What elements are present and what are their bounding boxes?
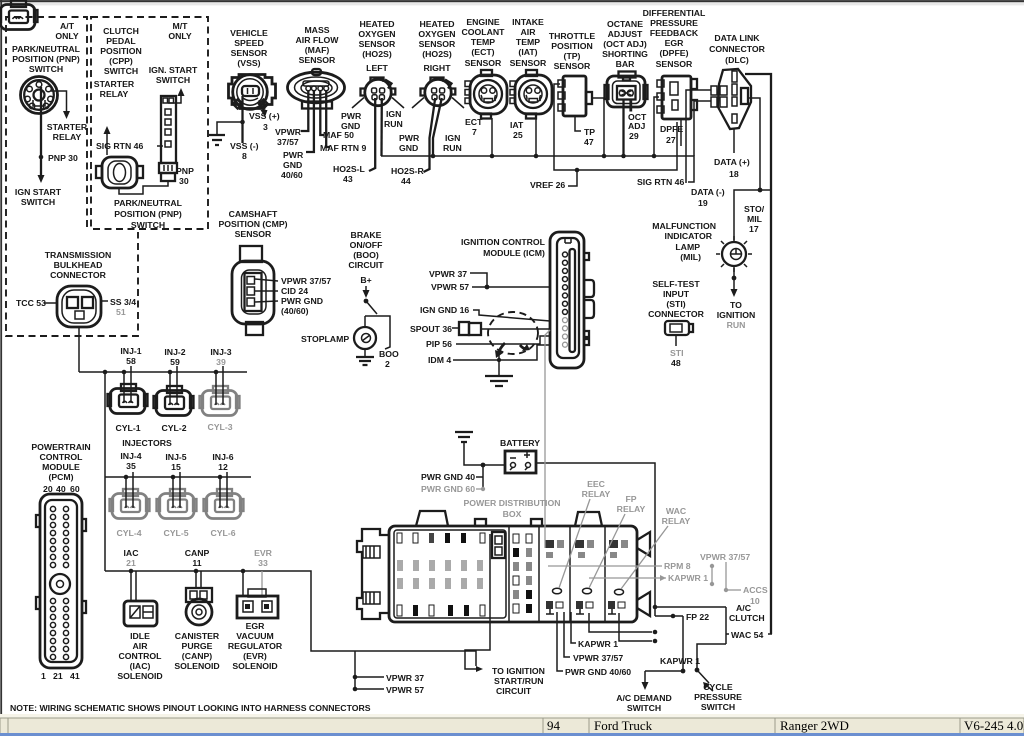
svg-text:RIGHT: RIGHT [423,63,451,73]
svg-text:48: 48 [671,358,681,368]
svg-text:POWERTRAIN: POWERTRAIN [31,442,90,452]
svg-text:IGN. START: IGN. START [149,65,198,75]
svg-text:MODULE: MODULE [42,462,80,472]
svg-text:BRAKE: BRAKE [351,230,382,240]
svg-text:HEATED: HEATED [419,19,454,29]
svg-text:VPWR 37/57: VPWR 37/57 [700,552,750,562]
svg-text:COOLANT: COOLANT [462,27,506,37]
svg-text:POSITION (PNP): POSITION (PNP) [12,54,80,64]
svg-text:DATA (+): DATA (+) [714,157,750,167]
svg-text:INJECTORS: INJECTORS [122,438,172,448]
svg-text:INJ-1: INJ-1 [120,346,141,356]
svg-text:DPFE: DPFE [660,124,683,134]
svg-text:OXYGEN: OXYGEN [418,29,455,39]
svg-text:PEDAL: PEDAL [106,36,136,46]
svg-text:RUN: RUN [727,320,746,330]
svg-text:12: 12 [218,462,228,472]
svg-text:POSITION: POSITION [551,41,593,51]
svg-text:Ford Truck: Ford Truck [594,718,653,733]
svg-text:7: 7 [472,127,477,137]
svg-text:40: 40 [56,484,66,494]
svg-text:REGULATOR: REGULATOR [228,641,283,651]
svg-text:TP: TP [584,127,595,137]
svg-text:EEC: EEC [587,479,606,489]
svg-text:START/RUN: START/RUN [494,676,544,686]
svg-text:SWITCH: SWITCH [104,66,138,76]
svg-text:PNP 30: PNP 30 [48,153,78,163]
svg-text:HO2S-R: HO2S-R [391,166,425,176]
svg-text:PIP 56: PIP 56 [426,339,452,349]
svg-text:FEEDBACK: FEEDBACK [650,28,699,38]
svg-text:BOX: BOX [503,509,522,519]
svg-text:CYL-3: CYL-3 [207,422,232,432]
svg-text:CANP: CANP [185,548,210,558]
svg-text:SIG RTN 46: SIG RTN 46 [96,141,143,151]
svg-text:ENGINE: ENGINE [466,17,500,27]
svg-text:IGN: IGN [386,109,401,119]
svg-text:IDM 4: IDM 4 [428,355,451,365]
svg-text:KAPWR 1: KAPWR 1 [660,656,700,666]
svg-text:VPWR 57: VPWR 57 [431,282,469,292]
svg-text:MASS: MASS [304,25,329,35]
svg-text:SWITCH: SWITCH [156,75,190,85]
svg-text:SENSOR: SENSOR [231,48,268,58]
svg-text:SS 3/4: SS 3/4 [110,297,136,307]
svg-text:SWITCH: SWITCH [29,64,63,74]
svg-text:VSS (-): VSS (-) [230,141,259,151]
svg-text:RELAY: RELAY [582,489,611,499]
svg-text:VREF 26: VREF 26 [530,180,565,190]
svg-text:PWR GND 40: PWR GND 40 [421,472,475,482]
svg-text:CYL-6: CYL-6 [210,528,235,538]
svg-text:TEMP: TEMP [516,37,540,47]
svg-text:STI: STI [670,348,684,358]
svg-text:PWR GND 60: PWR GND 60 [421,484,475,494]
svg-text:POSITION (PNP): POSITION (PNP) [114,209,182,219]
svg-text:IAC: IAC [124,548,140,558]
svg-text:(HO2S): (HO2S) [422,49,452,59]
svg-text:VACUUM: VACUUM [236,631,273,641]
svg-text:PRESSURE: PRESSURE [694,692,742,702]
svg-text:NOTE: WIRING SCHEMATIC SHOWS P: NOTE: WIRING SCHEMATIC SHOWS PINOUT LOOK… [10,703,371,713]
svg-text:SHORTING: SHORTING [602,49,648,59]
svg-text:CONTROL: CONTROL [119,651,163,661]
svg-text:30: 30 [179,176,189,186]
svg-text:CYCLE: CYCLE [703,682,733,692]
svg-text:PWR: PWR [399,133,420,143]
svg-text:VSS (+): VSS (+) [249,111,280,121]
svg-text:37/57: 37/57 [277,137,299,147]
svg-text:V6-245 4.0L: V6-245 4.0L [964,718,1024,733]
svg-text:DATA (-): DATA (-) [691,187,725,197]
svg-text:THROTTLE: THROTTLE [549,31,596,41]
svg-text:(IAC): (IAC) [130,661,151,671]
svg-text:19: 19 [698,198,708,208]
svg-text:SWITCH: SWITCH [131,220,165,230]
svg-text:PARK/NEUTRAL: PARK/NEUTRAL [114,198,183,208]
svg-text:IGN GND 16: IGN GND 16 [420,305,469,315]
svg-text:27: 27 [666,135,676,145]
svg-text:GND: GND [399,143,418,153]
svg-text:SPOUT 36: SPOUT 36 [410,324,452,334]
svg-text:CONNECTOR: CONNECTOR [50,270,107,280]
svg-text:PWR: PWR [283,150,304,160]
svg-text:58: 58 [126,356,136,366]
svg-text:ADJUST: ADJUST [608,29,643,39]
svg-text:CYL-2: CYL-2 [161,423,186,433]
svg-text:(IAT): (IAT) [518,47,537,57]
svg-text:SENSOR: SENSOR [510,58,547,68]
svg-text:(ECT): (ECT) [471,47,494,57]
svg-text:GND: GND [341,121,360,131]
svg-text:ADJ: ADJ [628,121,646,131]
svg-text:CYL-1: CYL-1 [115,423,140,433]
svg-text:FP: FP [625,494,636,504]
svg-text:94: 94 [547,718,561,733]
svg-text:PWR: PWR [341,111,362,121]
svg-text:35: 35 [126,461,136,471]
svg-text:INJ-2: INJ-2 [164,347,185,357]
svg-text:SIG RTN 46: SIG RTN 46 [637,177,684,187]
svg-text:MAF 50: MAF 50 [323,130,354,140]
svg-text:Ranger 2WD: Ranger 2WD [780,718,849,733]
svg-text:INJ-6: INJ-6 [212,452,233,462]
svg-text:(CANP): (CANP) [182,651,213,661]
svg-text:11: 11 [192,558,201,568]
svg-text:VPWR 37: VPWR 37 [429,269,467,279]
svg-text:SENSOR: SENSOR [299,55,336,65]
svg-text:WAC: WAC [666,506,687,516]
svg-text:RELAY: RELAY [53,132,82,142]
svg-text:ON/OFF: ON/OFF [350,240,383,250]
svg-text:PWR GND: PWR GND [281,296,323,306]
svg-text:KAPWR 1: KAPWR 1 [668,573,708,583]
svg-text:AIR FLOW: AIR FLOW [296,35,340,45]
svg-text:(HO2S): (HO2S) [362,49,392,59]
svg-text:SENSOR: SENSOR [419,39,456,49]
svg-text:(OCT ADJ): (OCT ADJ) [603,39,647,49]
svg-text:RPM 8: RPM 8 [664,561,691,571]
svg-text:CONTROL: CONTROL [40,452,84,462]
svg-text:VPWR 37: VPWR 37 [386,673,424,683]
svg-text:CLUTCH: CLUTCH [103,26,139,36]
svg-text:VPWR 57: VPWR 57 [386,685,424,695]
svg-text:(40/60): (40/60) [281,306,309,316]
svg-text:HEATED: HEATED [359,19,394,29]
svg-text:POSITION: POSITION [100,46,142,56]
svg-text:INDICATOR: INDICATOR [665,231,713,241]
svg-text:INJ-4: INJ-4 [120,451,141,461]
svg-text:(TP): (TP) [564,51,581,61]
svg-text:47: 47 [584,137,594,147]
svg-text:INTAKE: INTAKE [512,17,544,27]
svg-text:43: 43 [343,174,353,184]
svg-text:MAF RTN 9: MAF RTN 9 [320,143,366,153]
svg-text:TEMP: TEMP [471,37,495,47]
svg-text:AIR: AIR [133,641,149,651]
svg-text:59: 59 [170,357,180,367]
svg-text:1: 1 [41,671,46,681]
svg-text:TCC 53: TCC 53 [16,298,46,308]
svg-text:ONLY: ONLY [55,31,79,41]
svg-text:25: 25 [513,130,523,140]
svg-text:40/60: 40/60 [281,170,303,180]
svg-text:CIRCUIT: CIRCUIT [496,686,532,696]
svg-text:LEFT: LEFT [366,63,388,73]
svg-text:(MIL): (MIL) [680,252,701,262]
svg-text:RELAY: RELAY [662,516,691,526]
svg-text:HO2S-L: HO2S-L [333,164,366,174]
svg-text:60: 60 [70,484,80,494]
svg-text:WAC 54: WAC 54 [731,630,764,640]
svg-text:INPUT: INPUT [663,289,690,299]
svg-text:FP 22: FP 22 [686,612,709,622]
svg-text:20: 20 [43,484,53,494]
svg-text:TO: TO [730,300,742,310]
svg-text:8: 8 [242,151,247,161]
svg-text:IGN START: IGN START [15,187,62,197]
svg-text:IGN: IGN [445,133,460,143]
svg-text:2: 2 [385,359,390,369]
svg-text:MALFUNCTION: MALFUNCTION [652,221,716,231]
svg-text:CIRCUIT: CIRCUIT [348,260,384,270]
svg-text:PURGE: PURGE [182,641,213,651]
svg-text:LAMP: LAMP [675,242,700,252]
svg-text:BAR: BAR [616,59,636,69]
svg-text:VPWR 37/57: VPWR 37/57 [281,276,331,286]
svg-text:DIFFERENTIAL: DIFFERENTIAL [643,8,706,18]
svg-text:BULKHEAD: BULKHEAD [54,260,103,270]
svg-text:21: 21 [53,671,63,681]
svg-text:INJ-5: INJ-5 [165,452,186,462]
svg-text:A/C DEMAND: A/C DEMAND [616,693,672,703]
svg-text:44: 44 [401,176,411,186]
svg-text:ECT: ECT [465,117,483,127]
svg-text:TRANSMISSION: TRANSMISSION [45,250,112,260]
svg-text:EVR: EVR [254,548,273,558]
svg-text:SWITCH: SWITCH [627,703,661,713]
svg-text:3: 3 [263,122,268,132]
svg-text:ONLY: ONLY [168,31,192,41]
svg-text:(EVR): (EVR) [243,651,267,661]
svg-text:VEHICLE: VEHICLE [230,28,268,38]
svg-text:A/C: A/C [736,603,752,613]
svg-text:SOLENOID: SOLENOID [232,661,277,671]
svg-text:(MAF): (MAF) [305,45,330,55]
svg-text:CID 24: CID 24 [281,286,308,296]
svg-text:SENSOR: SENSOR [359,39,396,49]
svg-text:51: 51 [116,307,126,317]
svg-text:DATA LINK: DATA LINK [714,33,760,43]
svg-text:PRESSURE: PRESSURE [650,18,698,28]
svg-text:21: 21 [126,558,136,568]
svg-text:A/T: A/T [60,21,75,31]
svg-text:IGNITION CONTROL: IGNITION CONTROL [461,237,546,247]
svg-text:SENSOR: SENSOR [235,229,272,239]
svg-text:PARK/NEUTRAL: PARK/NEUTRAL [12,44,81,54]
svg-text:KAPWR 1: KAPWR 1 [578,639,618,649]
svg-text:IGNITION: IGNITION [717,310,756,320]
svg-text:(PCM): (PCM) [48,472,73,482]
svg-text:SWITCH: SWITCH [21,197,55,207]
svg-text:SWITCH: SWITCH [701,702,735,712]
svg-text:33: 33 [258,558,268,568]
svg-text:CLUTCH: CLUTCH [729,613,765,623]
svg-text:(DPFE): (DPFE) [660,48,689,58]
svg-text:(VSS): (VSS) [237,58,260,68]
svg-text:STARTER: STARTER [94,79,135,89]
svg-text:SELF-TEST: SELF-TEST [652,279,700,289]
svg-text:CONNECTOR: CONNECTOR [709,44,766,54]
svg-text:17: 17 [749,224,759,234]
svg-text:(BOO): (BOO) [353,250,379,260]
svg-text:IAT: IAT [510,120,524,130]
svg-text:PWR GND 40/60: PWR GND 40/60 [565,667,631,677]
svg-text:SPEED: SPEED [234,38,263,48]
svg-text:CYL-4: CYL-4 [116,528,141,538]
svg-text:PNP: PNP [176,166,194,176]
svg-text:IDLE: IDLE [130,631,150,641]
svg-text:MIL: MIL [747,214,763,224]
svg-text:(CPP): (CPP) [109,56,133,66]
svg-text:OXYGEN: OXYGEN [358,29,395,39]
svg-text:15: 15 [171,462,181,472]
svg-text:39: 39 [216,357,226,367]
svg-text:STARTER: STARTER [47,122,88,132]
svg-text:CANISTER: CANISTER [175,631,220,641]
svg-text:OCTANE: OCTANE [607,19,643,29]
svg-text:10: 10 [750,596,760,606]
svg-text:BOO: BOO [379,349,399,359]
svg-text:RELAY: RELAY [617,504,646,514]
svg-text:RUN: RUN [443,143,462,153]
svg-text:STOPLAMP: STOPLAMP [301,334,349,344]
svg-text:CYL-5: CYL-5 [163,528,188,538]
svg-text:EGR: EGR [246,621,266,631]
svg-text:STO/: STO/ [744,204,765,214]
svg-text:RUN: RUN [384,119,403,129]
svg-text:CAMSHAFT: CAMSHAFT [229,209,278,219]
svg-text:SOLENOID: SOLENOID [117,671,162,681]
svg-text:VPWR 37/57: VPWR 37/57 [573,653,623,663]
svg-text:ACCS: ACCS [743,585,768,595]
svg-text:AIR: AIR [521,27,537,37]
svg-text:SENSOR: SENSOR [465,58,502,68]
svg-text:SENSOR: SENSOR [656,59,693,69]
svg-text:POWER DISTRIBUTION: POWER DISTRIBUTION [463,498,560,508]
svg-text:41: 41 [70,671,80,681]
svg-text:POSITION (CMP): POSITION (CMP) [218,219,287,229]
svg-text:(DLC): (DLC) [725,55,749,65]
svg-text:18: 18 [729,169,739,179]
svg-text:B+: B+ [360,275,371,285]
svg-text:TO IGNITION: TO IGNITION [492,666,545,676]
svg-text:GND: GND [283,160,302,170]
svg-text:EGR: EGR [665,38,685,48]
svg-text:MODULE (ICM): MODULE (ICM) [483,248,545,258]
svg-text:SENSOR: SENSOR [554,61,591,71]
svg-text:SOLENOID: SOLENOID [174,661,219,671]
svg-text:INJ-3: INJ-3 [210,347,231,357]
svg-text:(STI): (STI) [666,299,685,309]
svg-text:CONNECTOR: CONNECTOR [648,309,705,319]
svg-text:RELAY: RELAY [100,89,129,99]
svg-text:BATTERY: BATTERY [500,438,540,448]
svg-text:29: 29 [629,131,639,141]
svg-text:VPWR: VPWR [275,127,302,137]
svg-text:M/T: M/T [173,21,189,31]
